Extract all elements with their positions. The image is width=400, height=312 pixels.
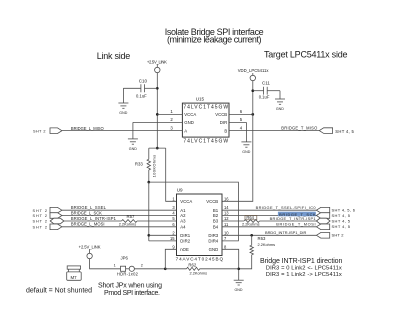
svg-text:B1: B1 [213, 208, 219, 213]
pin 5 U15 [229, 121, 246, 123]
svg-text:default = Not shunted: default = Not shunted [26, 287, 92, 294]
wire VDD rail [222, 81, 253, 202]
svg-text:JP6: JP6 [121, 256, 129, 261]
svg-text:SHT 2: SHT 2 [33, 220, 48, 224]
svg-text:16: 16 [224, 196, 229, 201]
svg-text:100KOhms: 100KOhms [151, 155, 156, 178]
svg-text:M7: M7 [71, 275, 78, 280]
svg-text:U15: U15 [196, 97, 205, 102]
svg-text:GND: GND [129, 147, 137, 151]
svg-text:DIR3 = 1 Link2 -> LPC5411x: DIR3 = 1 Link2 -> LPC5411x [266, 272, 342, 278]
svg-text:A2: A2 [180, 213, 186, 218]
svg-text:Target LPC5411x side: Target LPC5411x side [264, 49, 348, 59]
svg-text:SHT 4, 5: SHT 4, 5 [332, 218, 351, 223]
svg-text:HDR-1x02: HDR-1x02 [117, 271, 139, 276]
wire to JP6 [90, 259, 121, 269]
tag sheet-out BRIDGE_T_MISO [319, 128, 354, 134]
svg-text:GND: GND [209, 247, 219, 252]
svg-text:BRIDGE_T_SSEL-SPIFI_IC0: BRIDGE_T_SSEL-SPIFI_IC0 [256, 205, 317, 210]
junction DIR3 / R63 [250, 234, 253, 237]
svg-text:VCCA: VCCA [184, 112, 196, 117]
svg-text:DIR3: DIR3 [208, 233, 218, 238]
resistor R62 [165, 262, 238, 275]
svg-text:nOE: nOE [180, 247, 189, 252]
svg-text:+2.5V_LINK: +2.5V_LINK [147, 59, 167, 64]
svg-text:11: 11 [224, 222, 229, 227]
wire A2 BRIDGE_L_SCK [62, 215, 177, 217]
svg-text:13: 13 [224, 211, 229, 216]
svg-text:DIR3 = 0 Link2 <- LPC5411x: DIR3 = 0 Link2 <- LPC5411x [266, 266, 342, 272]
svg-text:R33: R33 [135, 161, 143, 166]
node U15 pin1 tap [156, 113, 159, 116]
wire A1 BRIDGE_L_SSEL [62, 209, 177, 211]
svg-text:2.2Kohms: 2.2Kohms [119, 221, 137, 226]
ic U15 74LVC1T45GW [182, 97, 229, 145]
wire B1 BRIDGE_T_SSEL-SPIFI_IC0 [222, 209, 316, 211]
svg-text:A1: A1 [180, 208, 186, 213]
resistor R63 [239, 235, 275, 268]
wire A4 BRIDGE_L_MOSI [62, 226, 177, 228]
svg-text:SHT 2: SHT 2 [33, 209, 48, 213]
svg-text:B2: B2 [213, 213, 219, 218]
tag sheet-in BRIDGE_L_MISO [33, 126, 104, 134]
svg-text:SHT 2: SHT 2 [33, 225, 48, 229]
svg-text:A4: A4 [180, 224, 186, 229]
svg-text:VCCA: VCCA [180, 199, 192, 204]
wire DIR pull net [149, 182, 239, 241]
svg-text:GND: GND [242, 150, 250, 154]
ground U15 pin2 [128, 122, 138, 150]
svg-text:GND: GND [184, 120, 194, 125]
node R33 bottom [147, 181, 150, 184]
svg-text:BRIDGE_L_SCK: BRIDGE_L_SCK [71, 210, 102, 215]
ground U15 pin5 [241, 122, 251, 153]
svg-text:GND: GND [276, 107, 284, 111]
svg-text:VCCB: VCCB [206, 199, 218, 204]
svg-text:SHT 2: SHT 2 [33, 214, 48, 218]
svg-text:DIR2: DIR2 [180, 239, 190, 244]
svg-text:SHT 4, 5: SHT 4, 5 [332, 224, 351, 229]
svg-text:BRIDGE_T_INTR-ISP1: BRIDGE_T_INTR-ISP1 [270, 216, 316, 221]
svg-text:BRIDGE_T_MOSI: BRIDGE_T_MOSI [276, 222, 315, 227]
svg-text:SHT 2: SHT 2 [332, 233, 345, 238]
wire VCCA feed U9 [166, 148, 177, 201]
ground U9 pin8 [234, 280, 244, 292]
wire nOE riser [165, 249, 176, 268]
tag out B4 [316, 224, 329, 230]
pin 4 U15 wire BRIDGE_T_MISO [229, 130, 319, 132]
pin 3 U15 wire BRIDGE_L_MISO [62, 130, 182, 132]
wire B4 BRIDGE_T_MOSI [222, 226, 316, 228]
wire B3 BRIDGE_T_INTR-ISP1 [222, 220, 244, 222]
svg-text:12: 12 [224, 216, 229, 221]
svg-text:SHT 2: SHT 2 [33, 129, 46, 133]
svg-text:Bridge INTR-ISP1 direction: Bridge INTR-ISP1 direction [260, 258, 342, 265]
svg-text:0.1uF: 0.1uF [136, 94, 147, 99]
svg-text:BRDG_INTR-ISP1_DIR: BRDG_INTR-ISP1_DIR [265, 230, 306, 235]
svg-text:2.2Kohms: 2.2Kohms [190, 271, 208, 276]
tag out B3 bidir [316, 218, 330, 224]
svg-text:C10: C10 [139, 78, 148, 83]
svg-text:14: 14 [224, 205, 229, 210]
junction DIR1 tap [147, 234, 150, 237]
svg-text:74LVC1T45GW: 74LVC1T45GW [183, 104, 228, 110]
wire JP6 to nOE [134, 268, 165, 270]
resistor R64 [242, 215, 260, 227]
svg-text:GND: GND [235, 288, 243, 292]
tag out B2 [316, 213, 329, 219]
wire B2 BRIDGE_T_SCK highlighted [222, 215, 316, 217]
ground C11 [275, 91, 285, 111]
junction U15 pin6 / VDD rail [251, 113, 254, 116]
svg-text:BRIDGE_T_MISO: BRIDGE_T_MISO [281, 125, 317, 130]
pin 6 U15 [229, 113, 253, 115]
wire +2.5V rail [156, 73, 158, 148]
power +2.5V_LINK top [147, 59, 167, 72]
svg-text:(minimize leakage current): (minimize leakage current) [167, 34, 262, 44]
svg-text:Pmod SPI interface.: Pmod SPI interface. [104, 290, 160, 297]
svg-text:BRIDGE_L_MISO: BRIDGE_L_MISO [71, 126, 104, 131]
svg-text:74LVC1T45GW: 74LVC1T45GW [183, 138, 228, 144]
svg-text:SHT 4, 5: SHT 4, 5 [335, 129, 354, 134]
svg-text:B: B [224, 129, 227, 134]
svg-text:U9: U9 [177, 187, 183, 192]
svg-text:DIR1: DIR1 [180, 233, 190, 238]
wire GND pin8 U9 [222, 249, 239, 280]
jumper JP6 [114, 256, 143, 277]
svg-text:Link side: Link side [97, 51, 131, 61]
svg-text:DIR4: DIR4 [208, 239, 218, 244]
ic U9 74AVC4T0245BQ [176, 187, 224, 261]
power +2.5V_LINK bottom [79, 244, 101, 258]
junction JP6 / nOE / R62 [164, 267, 167, 270]
wire A3 BRIDGE_L_INTR-ISP1 [64, 220, 122, 222]
svg-text:2.2Kohms: 2.2Kohms [258, 242, 276, 247]
junction R62 / R63 / GND net [237, 267, 240, 270]
power VDD_LPC5411x [238, 68, 270, 81]
svg-text:0.1uF: 0.1uF [259, 95, 270, 100]
svg-text:VCCB: VCCB [215, 112, 227, 117]
node C10 tap [156, 87, 159, 90]
capacitor C10 [123, 78, 157, 98]
svg-text:C11: C11 [262, 80, 270, 85]
wire DIR3 BRDG_INTR-ISP1_DIR [222, 234, 316, 236]
svg-text:R63: R63 [258, 236, 266, 241]
svg-text:2: 2 [141, 264, 143, 268]
svg-text:1: 1 [114, 264, 116, 268]
svg-text:74AVC4T0245BQ: 74AVC4T0245BQ [176, 257, 224, 262]
resistor R57 [119, 214, 137, 226]
junction C11 tap [251, 89, 254, 92]
capacitor C11 [253, 80, 280, 99]
svg-text:B4: B4 [213, 224, 219, 229]
svg-text:2.2Kohms: 2.2Kohms [242, 222, 260, 227]
jumper shunt M7 [67, 266, 82, 280]
svg-text:15: 15 [170, 236, 175, 241]
pin 1 U15 [157, 113, 182, 115]
svg-text:+2.5V_LINK: +2.5V_LINK [79, 244, 101, 249]
node R33 top [156, 147, 159, 150]
svg-text:10: 10 [224, 230, 229, 235]
svg-text:BRIDGE_L_SSEL: BRIDGE_L_SSEL [71, 205, 107, 210]
svg-text:A: A [184, 129, 187, 134]
ground C10 [118, 88, 128, 115]
tag out B1 [316, 207, 329, 213]
svg-text:BRIDGE_L_INTR-ISP1: BRIDGE_L_INTR-ISP1 [71, 216, 117, 221]
svg-text:BRIDGE_L_MOSI: BRIDGE_L_MOSI [71, 222, 105, 227]
pin 2 U15 [133, 121, 183, 123]
svg-text:GND: GND [119, 111, 127, 115]
tag out DIR3 [316, 233, 329, 239]
svg-text:A3: A3 [180, 219, 186, 224]
svg-text:B3: B3 [213, 219, 219, 224]
svg-text:R57: R57 [127, 214, 135, 219]
resistor R33 pullup [135, 148, 166, 182]
svg-text:Short JPx when using: Short JPx when using [98, 283, 162, 290]
svg-text:VDD_LPC5411x: VDD_LPC5411x [238, 68, 270, 73]
svg-text:SHT 4, 5: SHT 4, 5 [332, 213, 351, 218]
svg-text:DIR: DIR [220, 120, 227, 125]
svg-text:R62: R62 [188, 262, 196, 267]
